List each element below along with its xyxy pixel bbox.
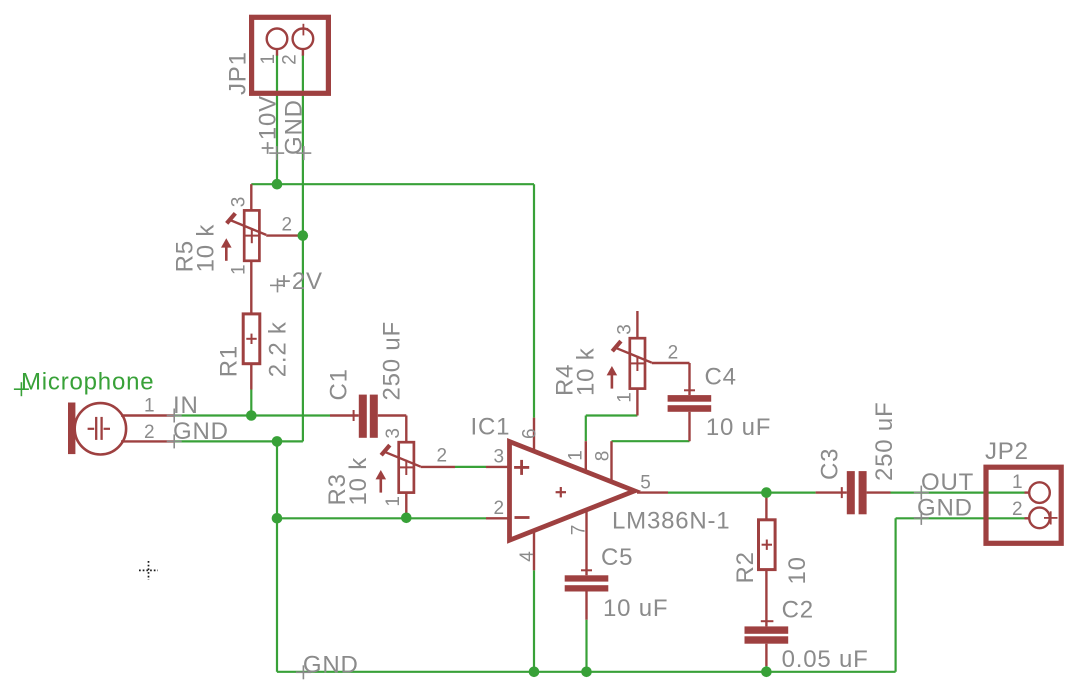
svg-text:+10V: +10V xyxy=(255,95,282,155)
svg-text:3: 3 xyxy=(229,197,250,208)
svg-text:0.05 uF: 0.05 uF xyxy=(782,646,869,673)
svg-text:JP2: JP2 xyxy=(985,438,1029,465)
svg-text:1: 1 xyxy=(1012,472,1023,493)
svg-text:+2V: +2V xyxy=(277,268,323,295)
svg-text:Microphone: Microphone xyxy=(21,369,154,396)
svg-text:2: 2 xyxy=(668,342,679,363)
svg-text:2: 2 xyxy=(437,446,448,467)
svg-text:GND: GND xyxy=(281,99,308,155)
svg-text:2.2 k: 2.2 k xyxy=(265,321,292,377)
svg-text:10 uF: 10 uF xyxy=(603,595,668,622)
svg-text:2: 2 xyxy=(280,54,301,65)
svg-text:C5: C5 xyxy=(601,544,633,571)
svg-text:8: 8 xyxy=(592,451,613,462)
svg-text:3: 3 xyxy=(494,446,505,467)
svg-text:1: 1 xyxy=(258,54,279,65)
svg-text:7: 7 xyxy=(568,525,589,536)
svg-text:GND: GND xyxy=(173,418,229,445)
svg-text:IN: IN xyxy=(173,392,199,419)
svg-text:C2: C2 xyxy=(782,597,814,624)
svg-text:GND: GND xyxy=(303,651,359,678)
svg-text:GND: GND xyxy=(917,495,973,522)
svg-text:250 uF: 250 uF xyxy=(379,321,406,401)
svg-text:250 uF: 250 uF xyxy=(871,401,898,481)
svg-text:2: 2 xyxy=(282,214,293,235)
svg-text:2: 2 xyxy=(1012,499,1023,520)
svg-text:3: 3 xyxy=(614,324,635,335)
svg-text:OUT: OUT xyxy=(921,469,974,496)
svg-text:1: 1 xyxy=(566,450,587,461)
svg-text:C1: C1 xyxy=(326,368,353,400)
svg-text:5: 5 xyxy=(640,473,651,494)
svg-text:10 k: 10 k xyxy=(193,224,220,273)
svg-text:3: 3 xyxy=(383,428,404,439)
svg-text:10 k: 10 k xyxy=(572,347,599,396)
svg-text:6: 6 xyxy=(520,428,541,439)
svg-text:1: 1 xyxy=(229,264,250,275)
svg-text:2: 2 xyxy=(494,498,505,519)
svg-text:1: 1 xyxy=(383,496,404,507)
svg-text:1: 1 xyxy=(614,392,635,403)
svg-text:R1: R1 xyxy=(215,345,242,377)
svg-text:IC1: IC1 xyxy=(471,414,511,441)
svg-text:JP1: JP1 xyxy=(225,51,252,95)
svg-text:C3: C3 xyxy=(816,448,843,480)
svg-text:10 k: 10 k xyxy=(345,457,372,506)
svg-text:C4: C4 xyxy=(705,363,737,390)
svg-text:R2: R2 xyxy=(732,551,759,583)
svg-text:LM386N-1: LM386N-1 xyxy=(612,508,730,535)
svg-text:10: 10 xyxy=(784,556,811,584)
svg-text:1: 1 xyxy=(144,396,155,417)
svg-text:4: 4 xyxy=(517,551,538,562)
svg-text:2: 2 xyxy=(144,422,155,443)
svg-text:10 uF: 10 uF xyxy=(706,414,771,441)
